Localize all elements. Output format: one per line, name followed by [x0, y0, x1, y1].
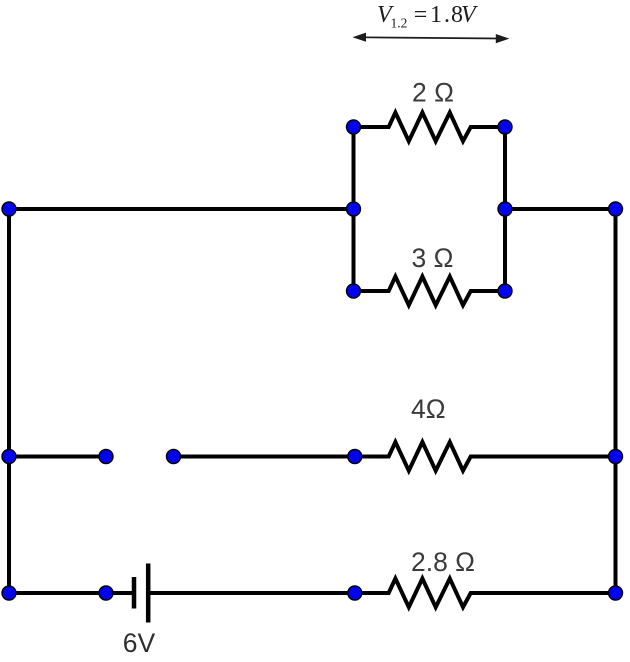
arrow measurement V1.2: [353, 33, 510, 44]
node left rail middle: [2, 450, 16, 464]
node switch left: [99, 450, 113, 464]
node mid-left of parallel block: [347, 202, 361, 216]
battery 6V negative plate: [132, 577, 137, 609]
node right rail bottom: [609, 586, 623, 600]
node bottom-left of parallel block: [347, 284, 361, 298]
node switch right: [167, 450, 181, 464]
svg-text:.: .: [444, 2, 450, 28]
resistor 3 ohm: [354, 277, 506, 306]
node right rail top: [609, 202, 623, 216]
wire parallel-right vertical: [503, 127, 507, 291]
resistor 2.8 ohm: [355, 579, 616, 608]
svg-text:=: =: [414, 2, 428, 28]
wire battery to resistor: [148, 591, 355, 595]
svg-text:1.2: 1.2: [391, 16, 408, 31]
resistor 2 ohm: [354, 113, 506, 142]
battery 6V positive plate: [146, 564, 151, 623]
svg-text:2.8 Ω: 2.8 Ω: [411, 547, 475, 577]
node mid-right of parallel block: [498, 202, 512, 216]
wire right rail: [614, 209, 618, 593]
node top-left of parallel block: [347, 120, 361, 134]
wire top-right horizontal: [505, 207, 616, 211]
wire top-left horizontal: [9, 207, 354, 211]
svg-text:6V: 6V: [123, 628, 156, 658]
node bottom branch resistor left: [348, 586, 362, 600]
node middle branch resistor left: [348, 450, 362, 464]
svg-text:1: 1: [430, 2, 442, 28]
wire bottom branch left: [9, 591, 134, 595]
node battery left: [99, 586, 113, 600]
node left rail top: [2, 202, 16, 216]
wire middle branch after switch gap: [174, 455, 355, 459]
resistor 4 ohm: [355, 442, 616, 471]
node top-right of parallel block: [498, 120, 512, 134]
svg-text:V: V: [461, 2, 478, 28]
label V1.2 = 1.8V: [377, 2, 478, 31]
node bottom-right of parallel block: [498, 284, 512, 298]
node right rail middle: [609, 450, 623, 464]
svg-text:4Ω: 4Ω: [411, 394, 446, 424]
node left rail bottom: [2, 586, 16, 600]
wire middle branch left: [9, 455, 106, 459]
svg-text:3 Ω: 3 Ω: [412, 243, 454, 273]
wire parallel-left vertical: [352, 127, 356, 291]
svg-text:2 Ω: 2 Ω: [412, 78, 454, 108]
wire left rail: [7, 209, 11, 593]
